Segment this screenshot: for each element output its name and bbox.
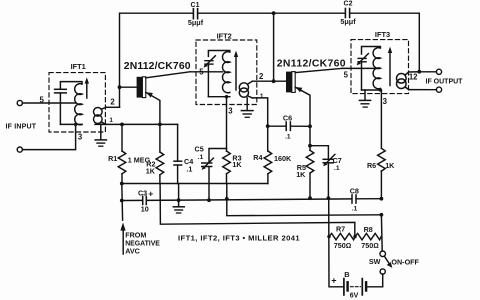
svg-text:2: 2 — [110, 98, 115, 107]
ground under IFT3 primary — [359, 90, 370, 107]
wire IFT2 primary bottom — [208, 96, 229, 98]
tuning arrow IFT3 — [388, 47, 392, 86]
svg-text:.1: .1 — [352, 205, 358, 212]
svg-text:R1: R1 — [108, 154, 117, 163]
wire Q2 emitter down to R5 — [309, 126, 311, 150]
wire IF INPUT bottom to IFT1 pin 3 — [22, 124, 75, 149]
svg-text:AVC: AVC — [125, 247, 140, 256]
svg-text:+: + — [148, 189, 153, 199]
wire battery left vertical — [329, 198, 344, 287]
wire IFT2 secondary top pin 2 to Q2 base — [252, 80, 286, 82]
resistor R2 — [156, 124, 164, 183]
svg-text:ON-OFF: ON-OFF — [391, 257, 419, 266]
svg-text:R6: R6 — [367, 161, 376, 170]
svg-text:3: 3 — [383, 97, 388, 106]
svg-text:3: 3 — [228, 107, 233, 116]
inductor IFT1 primary coil — [75, 84, 82, 125]
svg-text:1K: 1K — [385, 161, 395, 170]
capacitor C5 trimmer — [202, 149, 227, 201]
capacitor IFT2 internal trimmer — [204, 56, 216, 68]
wire Q2 collector to IFT3 pin 5 — [342, 67, 377, 69]
IF OUTPUT terminal bottom — [436, 87, 441, 92]
svg-text:IF INPUT: IF INPUT — [6, 123, 37, 130]
node IF OUTPUT junction — [417, 70, 421, 74]
svg-text:C3: C3 — [138, 188, 147, 197]
svg-text:.1: .1 — [285, 134, 291, 141]
wire output node to top terminal — [419, 71, 436, 73]
transistor Q1 2N112/CK760 — [137, 72, 190, 125]
wire IFT3 secondary bottom to bottom terminal — [409, 89, 437, 91]
transformer IFT2 dashed box — [196, 40, 257, 105]
node C3 line left junction — [120, 199, 124, 203]
wire IFT2 primary top — [208, 51, 229, 57]
svg-text:R7: R7 — [336, 224, 345, 233]
svg-text:1K: 1K — [146, 167, 156, 176]
wire top rail left segment with corner down to Q1 base node — [120, 13, 194, 107]
svg-text:160K: 160K — [274, 154, 292, 163]
capacitor C4 — [174, 124, 182, 183]
node Q2 base junction — [272, 79, 276, 83]
wire IF INPUT top to IFT1 primary tap pin 5 — [22, 102, 75, 104]
wire C7 branch horizontal — [310, 146, 328, 159]
svg-text:+: + — [331, 276, 336, 286]
svg-text:C2: C2 — [344, 1, 353, 8]
svg-text:1K: 1K — [232, 160, 242, 169]
svg-text:C5: C5 — [195, 145, 204, 154]
switch SW ON-OFF — [380, 251, 392, 274]
arrow FROM NEGATIVE AVC — [120, 222, 125, 254]
node C7 bottom junction — [327, 196, 331, 200]
wire Q1 base lead — [120, 86, 137, 88]
ground at C4 bottom — [173, 184, 184, 214]
wire vertical drop from top rail to Q2 base node — [273, 13, 275, 81]
wire IFT1 cap branch bottom — [59, 93, 61, 125]
resistor R6 — [378, 148, 386, 198]
wire IFT1 primary bottom — [60, 123, 82, 125]
ground under IFT1 rail — [95, 124, 106, 146]
svg-text:10: 10 — [141, 205, 149, 214]
node ground junction on line A — [177, 198, 181, 202]
svg-text:.1: .1 — [186, 165, 192, 174]
resistor R3 — [223, 151, 231, 184]
node R3 vertical line A junction — [225, 197, 229, 201]
node Q1 emitter junction on rail — [158, 123, 162, 127]
resistor R8 — [355, 233, 381, 239]
resistor R1 — [118, 124, 126, 183]
node line1 R1 junction — [120, 182, 124, 186]
svg-text:5μμf: 5μμf — [188, 18, 204, 27]
battery B 6V — [344, 279, 366, 295]
ground under IFT2 secondary — [241, 98, 253, 117]
svg-text:C8: C8 — [350, 186, 359, 195]
wire R2 bottom through lines down to line C — [160, 184, 355, 237]
capacitor C1 — [193, 9, 197, 19]
wire R6 line B to switch via R8 right node — [380, 215, 383, 251]
wire switch bottom to battery — [367, 274, 383, 287]
capacitor C6 — [268, 122, 310, 130]
wire IFT2 cap branch bottom — [207, 64, 209, 97]
node IFT2 pin 3 junction — [225, 95, 228, 98]
svg-text:1: 1 — [110, 118, 114, 124]
tuning arrow IFT2 — [234, 51, 238, 90]
svg-text:1K: 1K — [296, 170, 306, 179]
wire IFT3 cap branch bottom — [361, 62, 363, 90]
wire IFT2 pin 3 lead down — [226, 97, 228, 151]
wire emitter ground rail — [95, 123, 178, 125]
svg-text:IFT1: IFT1 — [71, 62, 86, 71]
wire R3 vertical down to line B — [227, 184, 382, 216]
IF OUTPUT terminal top — [436, 69, 441, 74]
resistor R7 — [329, 233, 355, 239]
IF INPUT terminal bottom — [17, 147, 22, 152]
wire IFT3 primary bottom — [362, 89, 381, 91]
node Q1 base junction — [118, 85, 122, 89]
svg-text:B: B — [344, 270, 349, 279]
svg-text:3: 3 — [78, 133, 83, 142]
node C7 branch junction — [308, 144, 312, 148]
transformer IFT3 dashed box — [351, 40, 409, 94]
wire AVC bypass line A — [147, 199, 352, 201]
svg-text:2N112/CK760: 2N112/CK760 — [124, 61, 191, 72]
capacitor IFT1 internal — [55, 89, 67, 93]
wire Q1 collector to IFT2 pin 5 — [190, 71, 223, 73]
svg-text:R8: R8 — [364, 225, 373, 234]
svg-text:C6: C6 — [283, 113, 292, 122]
svg-text:6V: 6V — [350, 292, 359, 299]
svg-text:750Ω: 750Ω — [334, 241, 352, 250]
node R6 bottom junction — [380, 197, 384, 201]
svg-text:750Ω: 750Ω — [361, 241, 379, 250]
node Q2 emitter C6 junction — [308, 124, 312, 128]
svg-text:IFT3: IFT3 — [375, 30, 390, 39]
capacitor C3 electrolytic — [122, 196, 147, 204]
svg-text:12: 12 — [409, 73, 418, 82]
wire line A right of C8 — [356, 198, 381, 200]
wire IFT1 secondary top pin 2 to Q1 base node — [106, 106, 119, 108]
svg-text:IFT2: IFT2 — [217, 32, 232, 41]
node R7 R8 junction — [353, 235, 356, 238]
svg-text:.1: .1 — [198, 154, 204, 161]
svg-text:5: 5 — [344, 71, 349, 80]
transformer IFT1 dashed box — [49, 73, 105, 132]
svg-text:SW: SW — [369, 257, 381, 266]
svg-text:IF OUTPUT: IF OUTPUT — [426, 78, 464, 85]
resistor R5 — [306, 150, 314, 198]
node junction top rail to Q2 base drop — [272, 11, 276, 15]
node R5 bottom junction — [308, 196, 312, 200]
inductor IFT2 secondary coil — [239, 81, 252, 98]
capacitor C8 — [352, 195, 356, 203]
capacitor C2 — [345, 9, 349, 18]
inductor IFT3 secondary coil — [397, 72, 409, 90]
wire top rail right segment with corner down to IF OUTPUT node — [350, 13, 419, 71]
svg-text:5: 5 — [199, 67, 204, 76]
node C6 left junction — [266, 124, 270, 128]
capacitor IFT3 internal trimmer — [357, 54, 369, 66]
svg-text:R4: R4 — [253, 153, 262, 162]
node R7 left junction — [327, 235, 330, 238]
node R1 top junction on rail — [120, 123, 124, 127]
node IFT1 pin 3 junction — [74, 123, 77, 126]
wire R1 bottom to AVC — [121, 184, 124, 221]
wire IFT3 secondary top pin 12 to output node — [409, 71, 420, 73]
wire IFT3 primary top — [362, 47, 381, 55]
transistor Q2 2N112/CK760 — [286, 68, 342, 126]
svg-text:1: 1 — [260, 93, 264, 100]
svg-text:C1: C1 — [191, 2, 200, 9]
wire top rail middle segment C1 to C2 — [198, 12, 345, 14]
tuning arrow IFT1 — [85, 77, 89, 98]
IF INPUT terminal top — [17, 100, 22, 105]
svg-text:.1: .1 — [334, 165, 340, 172]
node C5 bottom junction — [207, 198, 211, 202]
inductor IFT1 secondary coil — [94, 107, 107, 124]
resistor R4 — [264, 151, 272, 184]
wire bias line 1 (R2 C4 R3 R4 bottoms) — [122, 183, 268, 185]
svg-text:IFT1, IFT2, IFT3 • MILLER 2041: IFT1, IFT2, IFT3 • MILLER 2041 — [178, 233, 300, 242]
inductor IFT3 primary coil — [373, 48, 380, 89]
wire IFT3 pin 3 lead down to R6 — [380, 90, 382, 148]
svg-text:5: 5 — [40, 95, 45, 104]
capacitor C7 trimmer — [323, 154, 335, 198]
inductor IFT2 primary coil — [222, 52, 229, 93]
svg-text:2N112/CK760: 2N112/CK760 — [277, 58, 346, 69]
node line B right end junction — [380, 213, 384, 217]
svg-text:2: 2 — [259, 72, 264, 81]
svg-text:5μμf: 5μμf — [340, 17, 356, 26]
node IFT3 pin 3 junction — [379, 88, 382, 91]
svg-text:FROM: FROM — [125, 231, 146, 240]
wire IFT2 secondary bottom pin 1 down to C6 node — [252, 98, 267, 151]
wire IFT1 primary top — [60, 82, 82, 89]
